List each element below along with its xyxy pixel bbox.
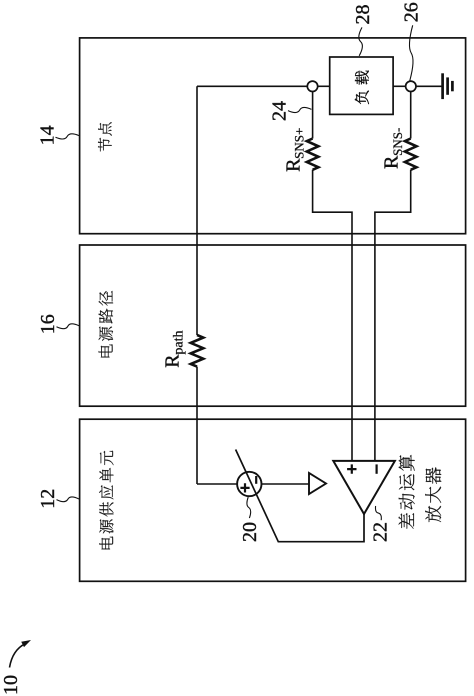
svg-text:path: path: [172, 330, 187, 354]
svg-text:SNS+: SNS+: [292, 128, 307, 159]
svg-text:24: 24: [268, 101, 290, 121]
svg-text:10: 10: [0, 675, 22, 695]
svg-text:R: R: [381, 155, 403, 169]
svg-text:22: 22: [369, 522, 391, 542]
svg-text:16: 16: [37, 314, 59, 334]
svg-text:SNS-: SNS-: [390, 128, 405, 156]
svg-text:12: 12: [37, 489, 59, 509]
svg-text:R: R: [162, 354, 184, 368]
svg-text:26: 26: [401, 2, 423, 22]
svg-text:14: 14: [37, 125, 59, 145]
svg-text:20: 20: [239, 522, 261, 542]
svg-text:R: R: [282, 158, 304, 172]
svg-text:28: 28: [352, 5, 374, 25]
